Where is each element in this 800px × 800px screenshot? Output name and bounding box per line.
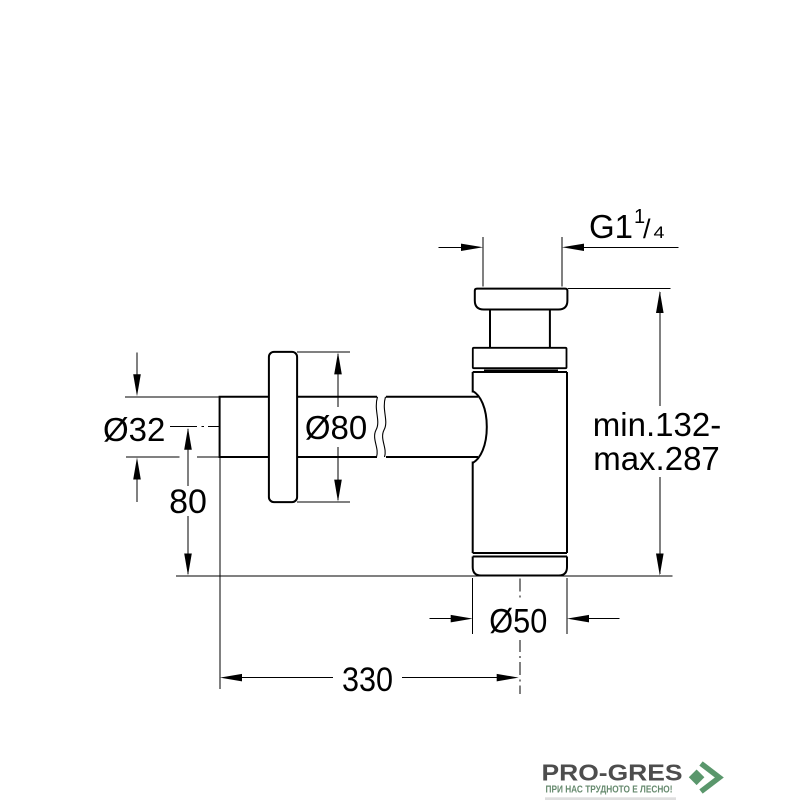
wall flange disc Ø80 (269, 352, 297, 502)
Ø50 arrowhead right (points left) (567, 615, 589, 623)
svg-text:Ø50: Ø50 (489, 602, 547, 640)
washer line under nut (484, 369, 558, 371)
pipe left segment outline (220, 397, 377, 457)
svg-text:/: / (643, 214, 651, 244)
Ø32 top extension line (125, 396, 220, 398)
bottom faint strip (545, 797, 676, 800)
svg-text:80: 80 (169, 483, 207, 521)
330 arrowhead right (points right) (497, 674, 519, 682)
80 dimension line lower segment (187, 516, 189, 574)
top connection flange G1 1/4 (475, 289, 568, 310)
min/max dimension line upper segment (659, 292, 661, 406)
bottom cup (473, 557, 567, 576)
330 dimension line left part (241, 677, 333, 679)
Ø80 dimension line upper segment (337, 354, 339, 407)
G1 1/4 dimension line left part (439, 246, 463, 248)
Ø80 top extension line (297, 351, 350, 353)
label min.132-max.287 (593, 406, 721, 477)
svg-text:ПРИ НАС ТРУДНОТО Е ЛЕСНО!: ПРИ НАС ТРУДНОТО Е ЛЕСНО! (546, 785, 673, 796)
G1 1/4 arrowhead right (points left) (562, 244, 584, 251)
G1 1/4 extension line right (561, 237, 563, 287)
pipe break wavy line left (375, 397, 378, 457)
Ø32 arrowhead upper (points down) (133, 374, 141, 396)
pipe break wavy line right (383, 397, 386, 457)
pipe-end extension line down to 330 dim (219, 458, 221, 689)
svg-text:Ø80: Ø80 (305, 409, 367, 446)
Ø80 dimension line lower segment (337, 447, 339, 500)
Ø50 dimension line left part (430, 618, 452, 620)
logo green chevron (701, 764, 719, 792)
body bottom joint double line (473, 553, 567, 557)
Ø50 dimension line right part (588, 618, 620, 620)
pipe end cap bulge into body (473, 391, 487, 463)
label G1 1/4 (589, 206, 665, 245)
Ø50 extension line left (472, 578, 474, 634)
G1 1/4 dimension line right part (583, 246, 678, 248)
330 dimension line right part (402, 677, 498, 679)
svg-text:4: 4 (654, 223, 665, 242)
svg-text:G1: G1 (589, 208, 633, 245)
min/max dimension line lower segment (659, 477, 661, 574)
Ø50 arrowhead left (points right) (451, 615, 473, 623)
Ø80 arrowhead top (points up) (334, 352, 342, 374)
body centerline below (dash-dot) (519, 579, 521, 695)
logo green diamond (689, 770, 705, 786)
Ø80 arrowhead bottom (points down) (334, 480, 342, 502)
svg-text:Ø32: Ø32 (103, 411, 165, 448)
80 arrowhead top (points up) (184, 428, 192, 450)
Ø32 arrow stem lower (136, 479, 138, 502)
svg-text:PRO-GRES: PRO-GRES (542, 760, 683, 786)
Ø50 extension line right (566, 578, 568, 634)
Ø80 bottom extension line (297, 501, 350, 503)
svg-text:330: 330 (342, 661, 393, 699)
pipe right segment outline (386, 397, 478, 457)
Ø32 arrow stem upper (136, 352, 138, 375)
G1 1/4 extension line left (482, 237, 484, 287)
svg-text:min.132-: min.132- (593, 406, 721, 443)
330 arrowhead left (points left) (220, 674, 242, 682)
bottom baseline extension line (176, 575, 673, 577)
min/max arrowhead bottom (points down) (656, 554, 664, 576)
trap body cylinder (473, 372, 567, 553)
80 dimension line upper segment (187, 429, 189, 486)
Ø32 bottom extension line (gap at 80-dim crossing) (126, 456, 220, 458)
Ø32 centerline leader dash-dot (170, 426, 219, 428)
lock nut (473, 348, 567, 368)
80 arrowhead bottom (points down) (184, 554, 192, 576)
min/max top extension line (568, 288, 670, 290)
threaded neck (490, 310, 550, 349)
G1 1/4 arrowhead left (points right) (461, 244, 483, 251)
svg-text:max.287: max.287 (593, 440, 720, 477)
Ø32 arrowhead lower (points up) (133, 458, 141, 480)
min/max arrowhead top (points up) (656, 291, 664, 313)
